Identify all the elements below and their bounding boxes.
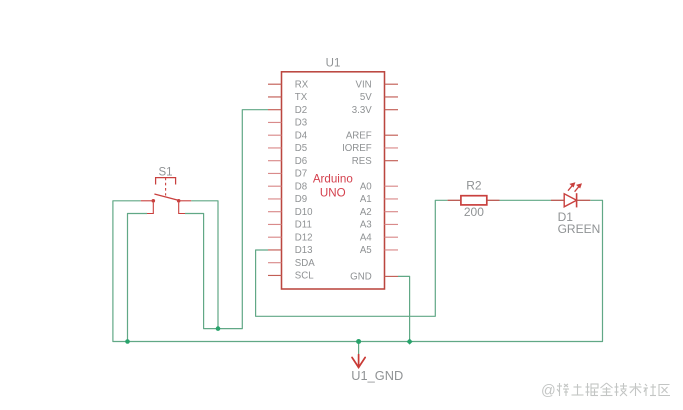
svg-text:IOREF: IOREF <box>342 143 372 154</box>
稀 <box>557 383 569 396</box>
node junction dot at ground tap <box>356 339 361 344</box>
svg-text:U1: U1 <box>326 58 341 70</box>
svg-text:D8: D8 <box>295 181 307 192</box>
svg-text:SCL: SCL <box>295 271 314 282</box>
LED emission arrows <box>568 182 582 192</box>
U1 left pin labels <box>295 79 315 281</box>
svg-text:D9: D9 <box>295 194 307 205</box>
resistor R2 <box>461 196 487 205</box>
IC U1 Arduino UNO body <box>282 72 385 289</box>
svg-text:A3: A3 <box>360 220 372 231</box>
switch S1 <box>141 178 191 214</box>
U1 right pin labels <box>342 79 372 282</box>
svg-text:UNO: UNO <box>320 187 346 200</box>
svg-text:D10: D10 <box>295 207 313 218</box>
svg-text:3.3V: 3.3V <box>352 105 372 116</box>
cathode lead <box>577 199 591 201</box>
svg-text:U1_GND: U1_GND <box>351 368 403 383</box>
土 <box>572 384 584 395</box>
svg-text:A5: A5 <box>360 245 372 256</box>
U1 left pin stubs RX..SCL <box>268 84 282 275</box>
svg-text:A1: A1 <box>360 194 372 205</box>
掘 <box>586 383 599 396</box>
svg-text:5V: 5V <box>360 92 372 103</box>
LED D1 <box>551 193 590 207</box>
pin bottom-left elbow <box>147 203 153 214</box>
svg-text:RX: RX <box>295 79 309 90</box>
svg-text:@: @ <box>541 383 556 399</box>
svg-text:D13: D13 <box>295 245 313 256</box>
actuator bracket <box>156 178 176 185</box>
wire: ground tap stub <box>358 342 360 355</box>
svg-text:D12: D12 <box>295 232 313 243</box>
wire: resistor R2 to LED D1 <box>500 199 552 201</box>
cathode bar <box>576 193 578 207</box>
svg-text:RES: RES <box>352 156 372 167</box>
svg-text:AREF: AREF <box>346 130 372 141</box>
node diamond junction at 409.6,341.5 <box>407 339 413 345</box>
svg-text:D4: D4 <box>295 130 308 141</box>
svg-text:D5: D5 <box>295 143 307 154</box>
金 <box>601 383 613 396</box>
node junction at 218,328.6 <box>216 326 221 331</box>
svg-text:D2: D2 <box>295 105 307 116</box>
wire: U1 GND pin down to rail <box>398 276 410 341</box>
社 <box>644 384 657 396</box>
svg-text:GND: GND <box>350 272 372 283</box>
pin bottom-right elbow <box>179 203 185 214</box>
lever <box>154 194 178 200</box>
svg-text:D3: D3 <box>295 118 307 129</box>
switch contact dots <box>152 199 156 203</box>
wire: switch top-right pin down to junction <box>191 201 218 329</box>
resistor leads <box>448 199 461 201</box>
svg-text:A4: A4 <box>360 232 372 243</box>
svg-text:S1: S1 <box>158 166 172 178</box>
wire: outer ground loop: switch top-left pin, down left side, bottom rail, up to LED cathode <box>113 200 603 341</box>
术 <box>630 383 642 396</box>
svg-text:GREEN: GREEN <box>558 222 601 236</box>
pin left <box>141 200 152 202</box>
svg-text:D7: D7 <box>295 169 307 180</box>
pin right <box>181 200 192 202</box>
svg-text:D11: D11 <box>295 220 312 231</box>
svg-text:D6: D6 <box>295 156 307 167</box>
diode triangle <box>564 194 576 207</box>
svg-text:SDA: SDA <box>295 258 315 269</box>
svg-text:A2: A2 <box>360 207 372 218</box>
wire: switch bottom-left elbow down to rail <box>128 214 148 342</box>
ground U1_GND arrow <box>352 355 365 368</box>
svg-text:VIN: VIN <box>356 79 372 90</box>
wire: D2 to switch right elbow net <box>185 110 268 329</box>
svg-text:TX: TX <box>295 92 308 103</box>
watermark @稀土掘金技术社区 <box>541 383 670 399</box>
node junction at 127.5,341.5 <box>125 339 130 344</box>
anode lead <box>551 199 564 201</box>
svg-text:Arduino: Arduino <box>313 172 353 185</box>
svg-text:R2: R2 <box>466 179 482 193</box>
dashed actuator stem <box>165 178 167 196</box>
区 <box>659 385 670 396</box>
svg-text:A0: A0 <box>360 181 372 192</box>
svg-text:200: 200 <box>464 205 484 219</box>
U1 right pin stubs VIN..GND <box>385 84 399 276</box>
wire: D13 to resistor R2 <box>256 200 448 316</box>
技 <box>615 383 628 396</box>
